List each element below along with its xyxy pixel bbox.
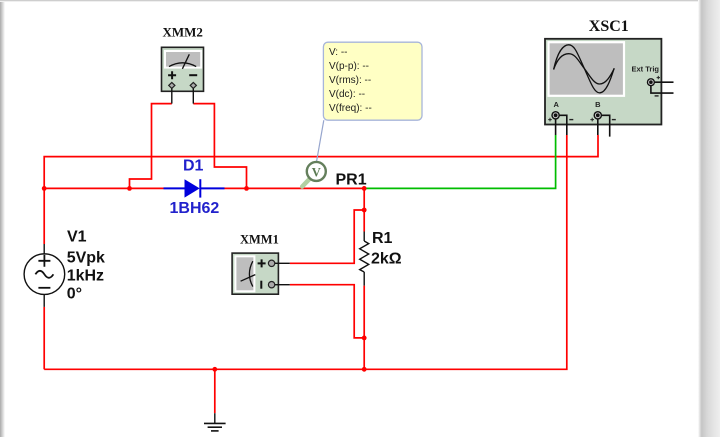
- scope A plus mark: [548, 118, 552, 122]
- scope terminal A: [551, 111, 560, 120]
- wire: left vertical V1 bottom red: [43, 307, 45, 369]
- node junction dot R1 top: [362, 208, 367, 213]
- ground: [204, 423, 226, 431]
- wire: XMM2 right terminal to diode cathode node: [193, 104, 246, 189]
- wire: left vertical V1 top lead red: [43, 188, 45, 244]
- node junction dot R1 ground: [362, 367, 367, 372]
- XMM2 terminal stub right: [192, 88, 194, 103]
- svg-text:V: V: [312, 165, 321, 179]
- scope B minus hook dangling: [601, 115, 609, 136]
- wire: R1 bottom to ground net: [363, 286, 365, 370]
- wire: R1 top node step to XMM1 plus: [290, 210, 364, 263]
- svg-text:V(freq): --: V(freq): --: [329, 103, 372, 114]
- wire: diode cathode to PR1 node: [225, 187, 365, 189]
- scope B pin stub: [597, 119, 599, 135]
- window top edge: [0, 0, 720, 2]
- scope A pin stub: [555, 119, 557, 135]
- V1 source lead black bottom: [43, 294, 45, 307]
- node junction dot PR1: [362, 186, 367, 191]
- svg-text:PR1: PR1: [336, 172, 367, 189]
- scope Ext Trig terminal: [647, 78, 655, 86]
- node junction dot ground: [212, 367, 217, 372]
- node junction dot XMM2 left: [127, 186, 132, 191]
- source V1: [24, 254, 65, 295]
- resistor R1: [360, 232, 369, 286]
- probe leader line: [317, 120, 324, 161]
- scope Ext Trig plus mark: [657, 76, 660, 79]
- window left edge: [0, 0, 5, 437]
- wire: PR1 node down to R1 top node: [363, 188, 365, 231]
- svg-text:R1: R1: [372, 230, 393, 247]
- scope Ext Trig pin stub: [655, 81, 674, 83]
- node junction dot XMM2 right: [244, 186, 249, 191]
- svg-text:0°: 0°: [67, 285, 82, 302]
- svg-text:XMM1: XMM1: [240, 232, 279, 246]
- XMM1 terminal stub minus: [275, 284, 290, 286]
- probe readout box: [323, 42, 422, 120]
- svg-text:XMM2: XMM2: [162, 25, 202, 40]
- wire: XMM1 minus to R1 bottom node: [290, 285, 364, 338]
- svg-text:V1: V1: [67, 228, 87, 245]
- wire: XMM2 left terminal to main net: [130, 104, 172, 189]
- probe PR1 magnifier: [302, 162, 326, 187]
- node junction dot R1 bottom net: [362, 336, 367, 341]
- XMM2 terminal stub left: [171, 88, 173, 103]
- scope B plus mark: [590, 118, 594, 122]
- oscilloscope XSC1: [545, 39, 661, 125]
- svg-text:V(p-p): --: V(p-p): --: [329, 61, 369, 72]
- svg-text:5Vpk: 5Vpk: [67, 249, 105, 266]
- node junction dot V1 top: [42, 186, 47, 191]
- svg-text:1kHz: 1kHz: [67, 267, 104, 284]
- XMM1 terminal stub plus: [275, 262, 290, 264]
- svg-text:V(rms): --: V(rms): --: [329, 75, 371, 86]
- scope Ext Trig minus mark: [655, 95, 659, 97]
- svg-text:Ext Trig: Ext Trig: [632, 65, 660, 74]
- multimeter XMM1: [232, 253, 278, 294]
- svg-text:V(dc): --: V(dc): --: [329, 89, 365, 100]
- scope terminal B: [594, 111, 603, 120]
- svg-text:D1: D1: [183, 157, 204, 174]
- scope A minus hook: [559, 115, 567, 135]
- svg-text:B: B: [595, 100, 601, 109]
- wire: top horizontal net (V1+ to scope B): [44, 135, 598, 188]
- svg-text:A: A: [553, 100, 559, 109]
- diode D1 body: [164, 179, 225, 197]
- svg-text:1BH62: 1BH62: [170, 200, 220, 217]
- window right edge: [698, 0, 720, 437]
- scope Ext Trig minus hook: [651, 86, 674, 93]
- svg-text:XSC1: XSC1: [589, 18, 629, 35]
- svg-text:V: --: V: --: [329, 47, 348, 58]
- ground lead black: [214, 413, 216, 423]
- svg-text:2kΩ: 2kΩ: [371, 251, 402, 268]
- scope B minus mark: [612, 119, 616, 121]
- wire: main net V1+ to diode anode: [44, 187, 163, 189]
- V1 source lead black top: [43, 244, 45, 254]
- multimeter XMM2: [162, 47, 204, 91]
- scope A minus mark: [569, 119, 573, 121]
- wire: bottom ground net: [44, 135, 567, 369]
- wire: ground stub red: [214, 369, 216, 413]
- wire: green net PR1 to scope channel A: [364, 135, 555, 188]
